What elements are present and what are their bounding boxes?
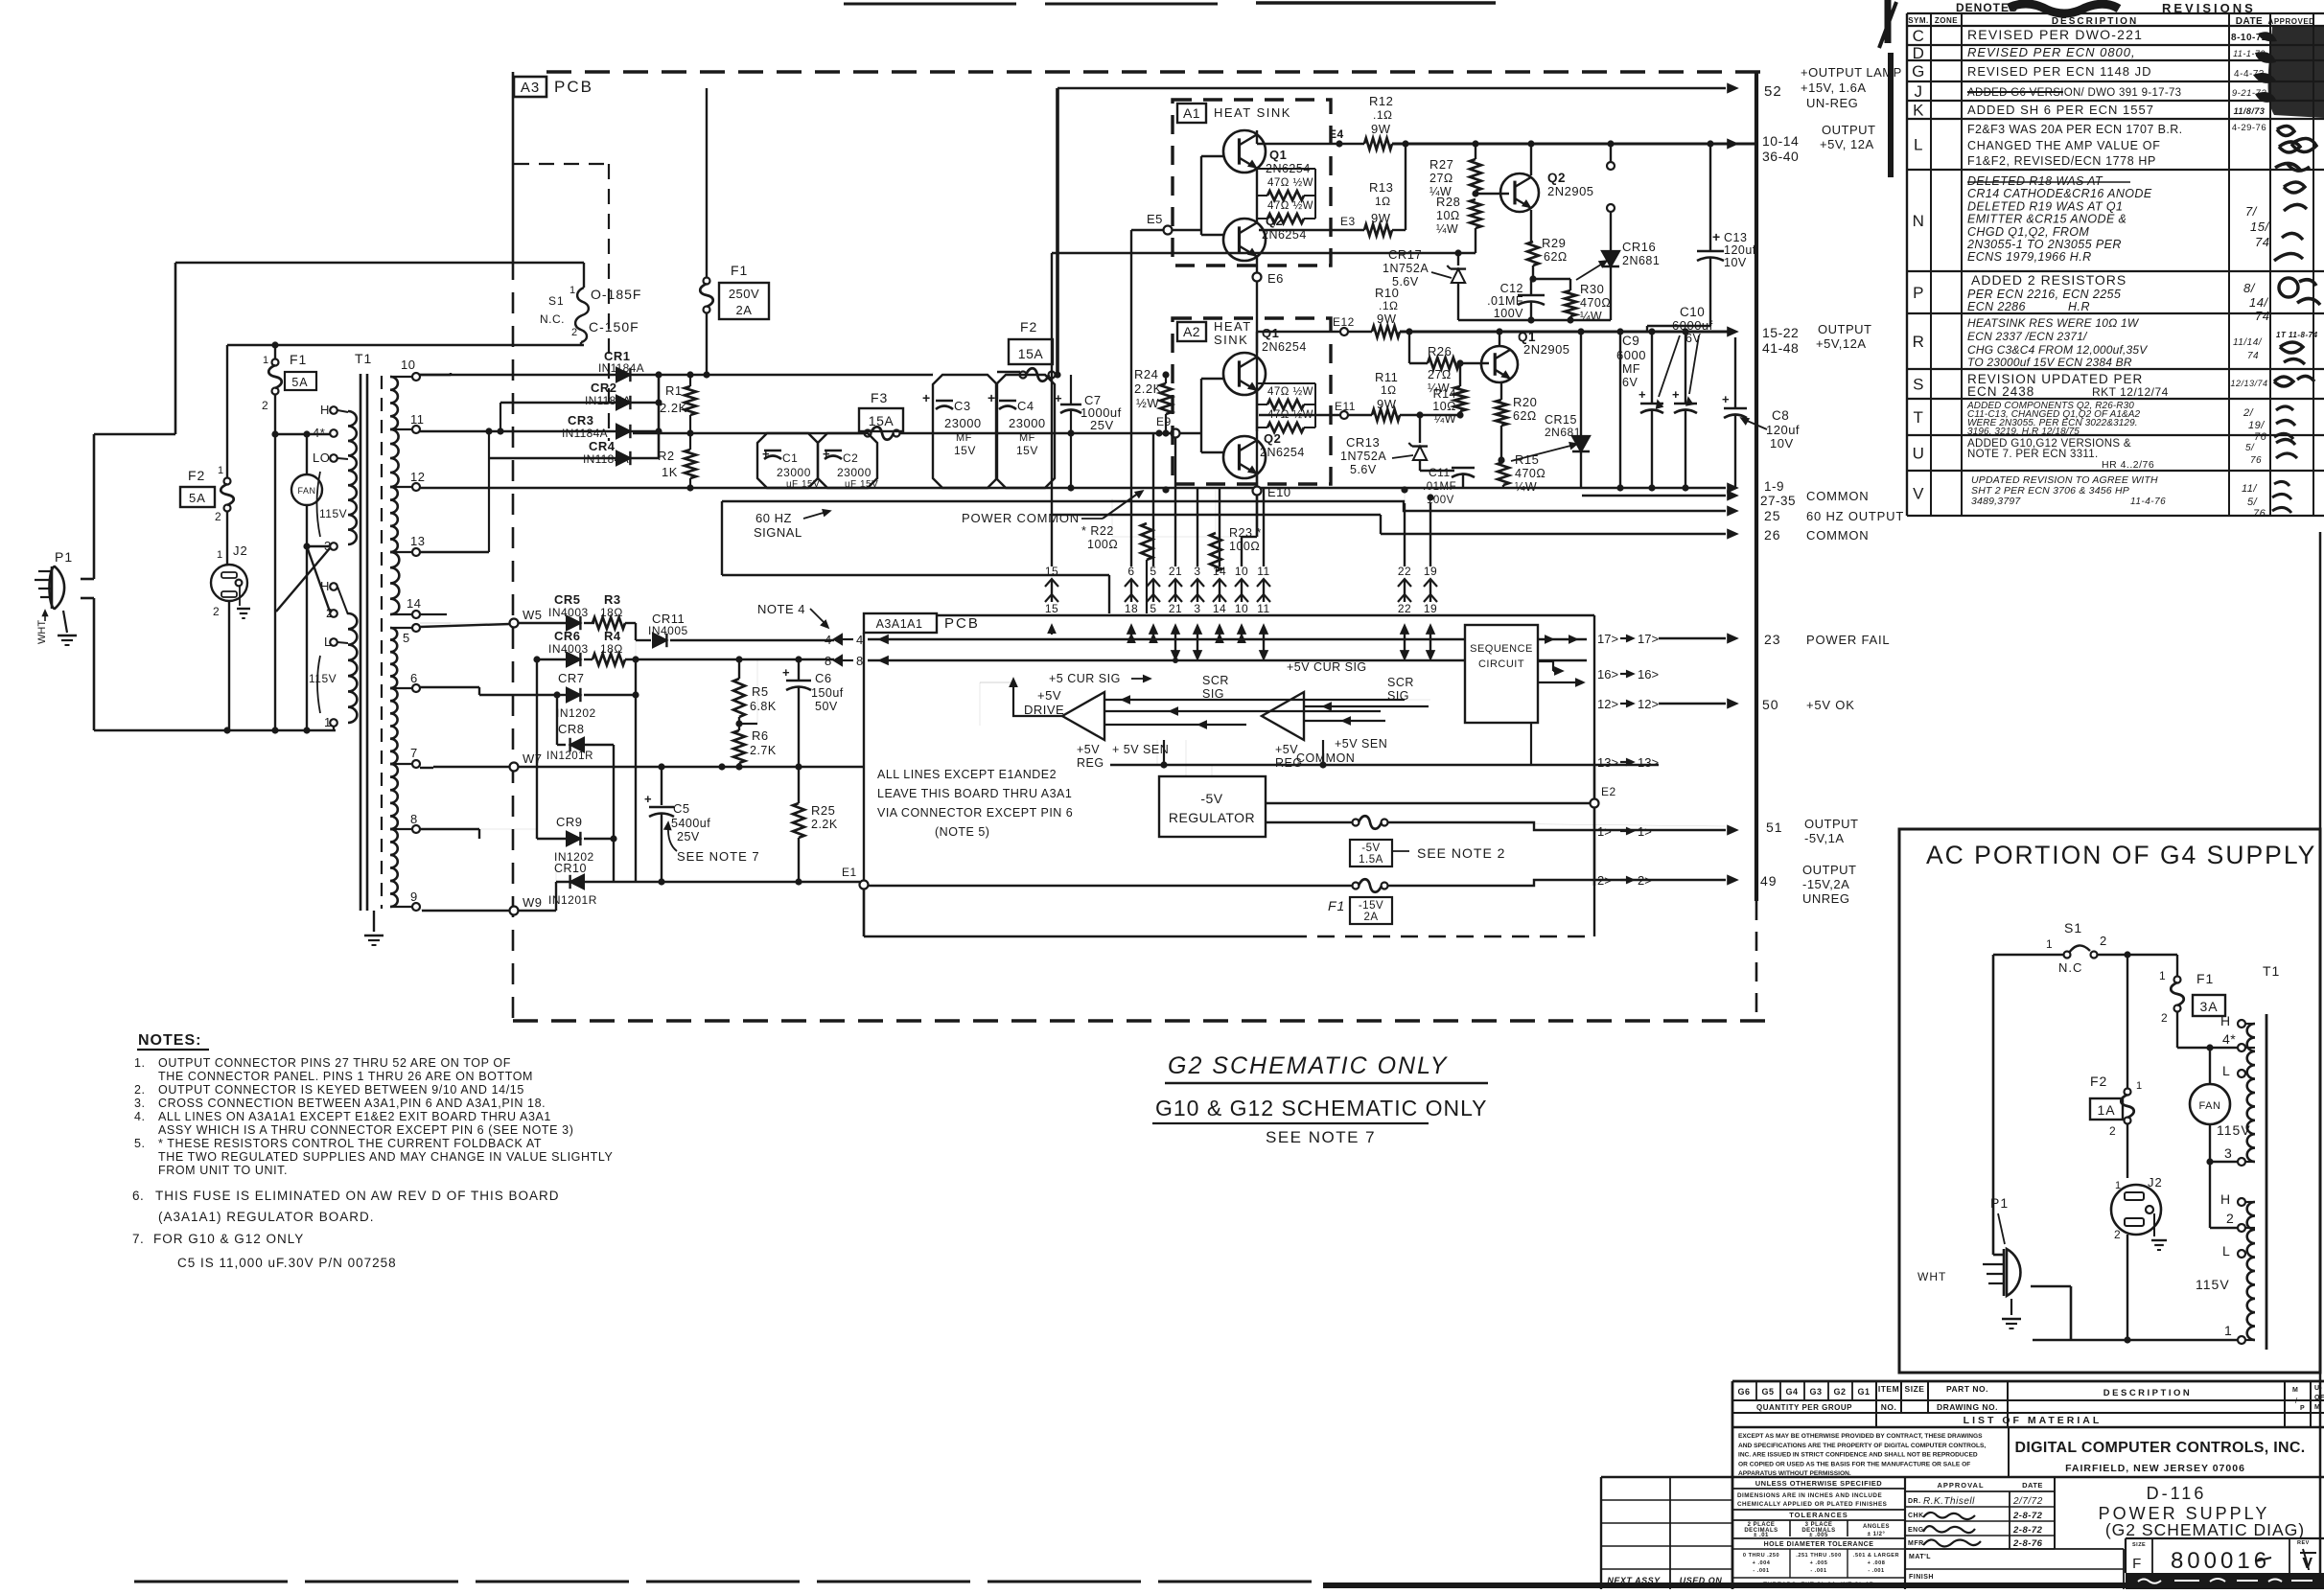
svg-text:19: 19 <box>1424 602 1437 615</box>
svg-text:E5: E5 <box>1147 212 1163 226</box>
svg-text:* THESE RESISTORS CONTROL THE: * THESE RESISTORS CONTROL THE CURRENT FO… <box>158 1137 542 1150</box>
svg-text:2: 2 <box>2226 1211 2234 1226</box>
svg-text:IN1184A: IN1184A <box>562 427 608 440</box>
svg-text:OUTPUT CONNECTOR PINS 27 THRU: OUTPUT CONNECTOR PINS 27 THRU 52 ARE ON … <box>158 1056 511 1070</box>
svg-text:ADDED SH 6 PER ECN 1557: ADDED SH 6 PER ECN 1557 <box>1967 103 2154 117</box>
svg-text:11: 11 <box>410 412 425 427</box>
svg-text:F1: F1 <box>290 352 307 367</box>
svg-text:WHT: WHT <box>36 620 48 644</box>
svg-text:HEATSINK RES WERE 10Ω 1W: HEATSINK RES WERE 10Ω 1W <box>1967 316 2140 330</box>
svg-text:F2: F2 <box>1020 319 1037 335</box>
svg-text:11: 11 <box>1257 565 1269 578</box>
svg-text:Q1: Q1 <box>1262 326 1279 340</box>
svg-text:P: P <box>1913 284 1924 302</box>
svg-text:+: + <box>988 390 996 405</box>
svg-text:O-185F: O-185F <box>591 287 641 302</box>
svg-text:G3: G3 <box>1809 1387 1822 1397</box>
svg-text:1Ω: 1Ω <box>1381 383 1397 397</box>
svg-text:CR17: CR17 <box>1388 247 1422 262</box>
svg-text:10Ω: 10Ω <box>1432 400 1456 413</box>
svg-text:OF: OF <box>2314 1395 2324 1401</box>
svg-text:C9: C9 <box>1622 334 1639 348</box>
svg-text:2-8-72: 2-8-72 <box>2012 1511 2043 1521</box>
svg-text:R23 *: R23 * <box>1229 526 1262 540</box>
svg-text:OUTPUT CONNECTOR IS KEYED BETW: OUTPUT CONNECTOR IS KEYED BETWEEN 9/10 A… <box>158 1083 524 1097</box>
svg-text:ENG: ENG <box>1908 1527 1924 1534</box>
svg-text:22: 22 <box>1398 565 1411 578</box>
svg-text:SEE NOTE 7: SEE NOTE 7 <box>1266 1128 1376 1146</box>
svg-text:23: 23 <box>1764 632 1781 647</box>
svg-text:1-9: 1-9 <box>1764 479 1784 494</box>
svg-text:OUTPUT: OUTPUT <box>1818 322 1871 336</box>
svg-text:11-4-76: 11-4-76 <box>2130 497 2166 507</box>
svg-text:WHT: WHT <box>1917 1270 1946 1283</box>
svg-text:R26: R26 <box>1428 344 1452 358</box>
svg-text:74: 74 <box>2247 351 2259 361</box>
svg-text:52: 52 <box>1764 83 1782 100</box>
svg-text:2/7/72: 2/7/72 <box>2012 1496 2043 1507</box>
svg-text:+5V, 12A: +5V, 12A <box>1820 137 1874 151</box>
svg-text:ZONE: ZONE <box>1935 16 1958 25</box>
svg-text:(G2 SCHEMATIC DIAG): (G2 SCHEMATIC DIAG) <box>2105 1520 2305 1539</box>
svg-text:R: R <box>1913 333 1925 351</box>
svg-text:THE CONNECTOR PANEL. PINS 1 T: THE CONNECTOR PANEL. PINS 1 THRU 26 ARE … <box>158 1070 533 1083</box>
svg-text:P1: P1 <box>55 549 73 565</box>
svg-text:W5: W5 <box>523 608 543 622</box>
svg-text:5400uf: 5400uf <box>671 817 710 830</box>
svg-text:UN-REG: UN-REG <box>1806 96 1858 110</box>
svg-text:/: / <box>2295 1397 2298 1405</box>
svg-text:R6: R6 <box>752 728 769 743</box>
svg-text:62Ω: 62Ω <box>1513 409 1537 423</box>
svg-text:¼W: ¼W <box>1436 222 1458 236</box>
svg-text:+5 CUR SIG: +5 CUR SIG <box>1049 672 1121 685</box>
svg-text:1.: 1. <box>134 1056 145 1070</box>
svg-text:R20: R20 <box>1513 395 1537 409</box>
svg-text:+ .004: + .004 <box>1753 1560 1771 1566</box>
svg-text:INC. ARE ISSUED IN STRICT CON: INC. ARE ISSUED IN STRICT CONFIDENCE AND… <box>1738 1452 1978 1459</box>
svg-text:+5V OK: +5V OK <box>1806 698 1855 712</box>
svg-text:49: 49 <box>1760 873 1778 889</box>
svg-text:A1: A1 <box>1183 105 1200 121</box>
svg-text:.1Ω: .1Ω <box>1373 108 1392 122</box>
svg-text:+: + <box>922 390 931 405</box>
svg-text:250V: 250V <box>729 287 759 301</box>
svg-text:4-29-76: 4-29-76 <box>2232 123 2266 133</box>
svg-text:4*: 4* <box>2222 1031 2236 1047</box>
svg-text:(NOTE 5): (NOTE 5) <box>935 825 989 839</box>
svg-text:18Ω: 18Ω <box>600 642 623 656</box>
svg-text:2: 2 <box>262 399 268 412</box>
svg-text:N: N <box>1913 212 1925 230</box>
svg-text:1: 1 <box>2115 1180 2122 1191</box>
svg-text:9W: 9W <box>1371 122 1391 136</box>
svg-text:18Ω: 18Ω <box>600 606 623 619</box>
svg-text:EMITTER &CR15 ANODE &: EMITTER &CR15 ANODE & <box>1967 213 2126 226</box>
svg-text:17>: 17> <box>1597 632 1618 646</box>
svg-text:10: 10 <box>1235 602 1248 615</box>
svg-text:TO 23000uf 15V ECN 2384 BR: TO 23000uf 15V ECN 2384 BR <box>1967 356 2132 369</box>
svg-text:F2&F3 WAS 20A PER ECN 1707 B.R: F2&F3 WAS 20A PER ECN 1707 B.R. <box>1967 123 2183 136</box>
svg-text:G2: G2 <box>1833 1387 1846 1397</box>
svg-text:15V: 15V <box>954 444 976 457</box>
svg-text:CR9: CR9 <box>556 815 583 829</box>
svg-text:IN1184A: IN1184A <box>598 361 644 375</box>
svg-text:U-: U- <box>2314 1385 2323 1392</box>
svg-text:COMMON: COMMON <box>1806 528 1869 543</box>
svg-text:CR15: CR15 <box>1545 413 1577 427</box>
svg-text:CHANGED THE AMP VALUE OF: CHANGED THE AMP VALUE OF <box>1967 139 2161 152</box>
svg-text:1: 1 <box>324 715 332 729</box>
svg-text:IN4003: IN4003 <box>548 642 589 656</box>
svg-text:E9: E9 <box>1156 415 1172 428</box>
svg-text:OUTPUT: OUTPUT <box>1822 123 1875 137</box>
svg-text:62Ω: 62Ω <box>1544 250 1568 264</box>
svg-text:* R22: * R22 <box>1081 524 1114 538</box>
svg-text:+5V: +5V <box>1077 743 1100 756</box>
svg-text:27-35: 27-35 <box>1760 494 1796 508</box>
svg-text:MFR: MFR <box>1908 1540 1924 1547</box>
svg-text:8: 8 <box>856 654 864 668</box>
svg-text:DATE: DATE <box>2236 16 2263 27</box>
svg-text:2: 2 <box>326 606 334 620</box>
svg-text:11/: 11/ <box>2242 483 2257 495</box>
svg-text:FROM UNIT TO UNIT.: FROM UNIT TO UNIT. <box>158 1164 288 1177</box>
svg-text:2N6254: 2N6254 <box>1260 446 1305 459</box>
svg-text:APPROVED: APPROVED <box>2268 17 2315 26</box>
svg-text:2: 2 <box>2100 934 2107 948</box>
svg-text:CIRCUIT: CIRCUIT <box>1478 658 1524 670</box>
svg-text:0 THRU .250: 0 THRU .250 <box>1743 1553 1779 1559</box>
svg-text:IN1202: IN1202 <box>556 706 596 720</box>
svg-text:SEE NOTE 7: SEE NOTE 7 <box>677 849 760 864</box>
svg-text:A2: A2 <box>1183 324 1200 339</box>
svg-text:IN1184A: IN1184A <box>585 394 631 407</box>
svg-text:F3: F3 <box>871 390 888 405</box>
svg-text:+5V CUR SIG: +5V CUR SIG <box>1287 660 1367 674</box>
svg-text:CR6: CR6 <box>554 629 581 643</box>
svg-text:Q2: Q2 <box>1266 214 1283 228</box>
svg-text:10: 10 <box>401 358 415 372</box>
svg-text:3A: 3A <box>2199 999 2218 1014</box>
svg-text:R30: R30 <box>1580 282 1604 296</box>
svg-text:S1: S1 <box>2064 920 2082 936</box>
svg-text:ITEM: ITEM <box>1878 1384 1899 1394</box>
svg-text:7: 7 <box>410 746 418 760</box>
svg-text:HOLE DIAMETER TOLERANCE: HOLE DIAMETER TOLERANCE <box>1764 1541 1874 1548</box>
svg-text:47Ω ½W: 47Ω ½W <box>1267 386 1313 398</box>
svg-text:1: 1 <box>217 549 223 561</box>
svg-text:2.2K: 2.2K <box>811 818 838 831</box>
svg-text:47Ω ½W: 47Ω ½W <box>1267 177 1313 189</box>
svg-text:.01MF: .01MF <box>1423 481 1456 493</box>
svg-text:RKT 12/12/74: RKT 12/12/74 <box>2092 385 2169 399</box>
svg-text:15/: 15/ <box>2250 219 2269 234</box>
svg-text:NO.: NO. <box>1881 1402 1897 1412</box>
svg-text:V: V <box>1913 485 1924 503</box>
svg-text:2.7K: 2.7K <box>750 744 777 757</box>
svg-text:OUTPUT: OUTPUT <box>1804 817 1858 831</box>
svg-text:7.: 7. <box>132 1232 144 1246</box>
svg-text:DELETED R19 WAS AT Q1: DELETED R19 WAS AT Q1 <box>1967 199 2123 213</box>
svg-text:115V: 115V <box>2217 1122 2251 1138</box>
svg-text:11/8/73: 11/8/73 <box>2234 106 2266 116</box>
svg-text:2: 2 <box>2161 1011 2168 1025</box>
svg-text:R14: R14 <box>1433 387 1456 401</box>
svg-text:H.R: H.R <box>2068 300 2090 313</box>
svg-text:E12: E12 <box>1333 315 1355 329</box>
svg-text:-15V,2A: -15V,2A <box>1802 877 1849 891</box>
svg-text:P: P <box>2300 1405 2305 1412</box>
svg-text:TOLERANCES: TOLERANCES <box>1789 1511 1848 1519</box>
svg-text:N.C.: N.C. <box>540 312 565 326</box>
svg-text:3: 3 <box>1194 602 1200 615</box>
svg-text:120uf: 120uf <box>1766 423 1800 437</box>
svg-text:2N3055-1 TO 2N3055 PER: 2N3055-1 TO 2N3055 PER <box>1966 238 2122 251</box>
svg-text:22: 22 <box>1398 602 1411 615</box>
svg-text:ADDED 2 RESISTORS: ADDED 2 RESISTORS <box>1971 272 2126 288</box>
svg-text:POWER FAIL: POWER FAIL <box>1806 633 1890 647</box>
svg-text:2.: 2. <box>134 1083 145 1097</box>
svg-text:R11: R11 <box>1375 370 1398 384</box>
svg-text:J2: J2 <box>2148 1175 2163 1190</box>
svg-text:6: 6 <box>410 671 418 685</box>
svg-text:CR7: CR7 <box>558 671 585 685</box>
svg-text:-15V: -15V <box>1359 900 1383 912</box>
svg-text:F: F <box>2132 1556 2142 1572</box>
svg-text:D-116: D-116 <box>2147 1484 2207 1503</box>
svg-text:THE TWO REGULATED SUPPLIES AND: THE TWO REGULATED SUPPLIES AND MAY CHANG… <box>158 1150 613 1164</box>
svg-text:DRAWING NO.: DRAWING NO. <box>1937 1402 1998 1412</box>
svg-text:MF: MF <box>1019 432 1035 444</box>
svg-text:11: 11 <box>1257 602 1269 615</box>
svg-text:2N2905: 2N2905 <box>1547 184 1594 198</box>
svg-text:C5 IS 11,000 uF.30V P/N 007258: C5 IS 11,000 uF.30V P/N 007258 <box>177 1256 397 1270</box>
svg-text:470Ω: 470Ω <box>1580 296 1611 310</box>
svg-text:CR14 CATHODE&CR16 ANODE: CR14 CATHODE&CR16 ANODE <box>1967 187 2152 200</box>
svg-text:CR3: CR3 <box>568 413 594 427</box>
svg-text:9W: 9W <box>1377 397 1397 411</box>
svg-text:C1: C1 <box>782 451 798 465</box>
svg-text:21: 21 <box>1169 602 1182 615</box>
svg-text:15A: 15A <box>1018 346 1044 361</box>
svg-text:1: 1 <box>2159 969 2166 982</box>
svg-text:G6: G6 <box>1737 1387 1750 1397</box>
svg-text:25V: 25V <box>677 830 700 843</box>
svg-text:L: L <box>324 635 332 649</box>
svg-text:5.: 5. <box>134 1137 145 1150</box>
svg-text:POWER COMMON: POWER COMMON <box>962 511 1080 525</box>
svg-text:2: 2 <box>2114 1228 2121 1241</box>
svg-text:ASSY WHICH IS A THRU CONNECTOR: ASSY WHICH IS A THRU CONNECTOR EXCEPT PI… <box>158 1123 573 1137</box>
svg-text:F1: F1 <box>731 263 748 278</box>
svg-text:15A: 15A <box>869 413 895 428</box>
svg-text:CR8: CR8 <box>558 722 585 736</box>
svg-text:13>: 13> <box>1638 755 1659 770</box>
svg-text:5: 5 <box>1150 602 1156 615</box>
svg-text:10V: 10V <box>1770 436 1794 450</box>
svg-text:APPARATUS WITHOUT PERMISSION.: APPARATUS WITHOUT PERMISSION. <box>1738 1470 1851 1477</box>
svg-text:EXCEPT AS MAY BE OTHERWISE PRO: EXCEPT AS MAY BE OTHERWISE PROVIDED BY C… <box>1738 1433 1983 1440</box>
svg-text:REVISED PER DWO-221: REVISED PER DWO-221 <box>1967 27 2143 42</box>
svg-text:SEQUENCE: SEQUENCE <box>1470 643 1533 655</box>
svg-text:5: 5 <box>403 631 410 645</box>
svg-text:SCR: SCR <box>1202 674 1229 687</box>
svg-text:60 HZ: 60 HZ <box>755 511 792 525</box>
svg-text:SEE NOTE 2: SEE NOTE 2 <box>1417 845 1505 861</box>
svg-text:N.C: N.C <box>2058 960 2082 975</box>
svg-text:12>: 12> <box>1638 697 1659 711</box>
svg-text:50V: 50V <box>815 700 838 713</box>
svg-text:uF 15V: uF 15V <box>845 479 878 490</box>
svg-text:OUTPUT: OUTPUT <box>1802 863 1856 877</box>
svg-text:CROSS CONNECTION BETWEEN A3A1,: CROSS CONNECTION BETWEEN A3A1,PIN 6 AND … <box>158 1097 546 1110</box>
svg-text:100Ω: 100Ω <box>1087 538 1118 551</box>
svg-text:2A: 2A <box>1363 912 1378 923</box>
svg-text:.501 & LARGER: .501 & LARGER <box>1853 1553 1899 1559</box>
svg-text:MAT'L: MAT'L <box>1909 1554 1931 1560</box>
svg-text:R28: R28 <box>1436 195 1460 209</box>
svg-text:5/: 5/ <box>2245 443 2255 453</box>
svg-text:3: 3 <box>1194 565 1200 578</box>
svg-text:J: J <box>1915 82 1923 101</box>
svg-text:+15V, 1.6A: +15V, 1.6A <box>1801 81 1867 95</box>
svg-text:+OUTPUT LAMP: +OUTPUT LAMP <box>1801 65 1902 80</box>
svg-text:DIGITAL COMPUTER CONTROLS, INC: DIGITAL COMPUTER CONTROLS, INC. <box>2015 1440 2306 1456</box>
svg-text:36-40: 36-40 <box>1762 149 1799 164</box>
svg-text:+ .008: + .008 <box>1868 1560 1886 1566</box>
svg-text:115V: 115V <box>309 672 337 685</box>
svg-text:Q2: Q2 <box>1264 431 1281 446</box>
svg-text:ECN 2337 /ECN 2371/: ECN 2337 /ECN 2371/ <box>1967 330 2088 343</box>
svg-text:DESCRIPTION: DESCRIPTION <box>2052 16 2138 27</box>
svg-text:115V: 115V <box>319 507 347 520</box>
svg-text:15: 15 <box>1045 565 1058 578</box>
svg-text:E2: E2 <box>1601 785 1616 798</box>
svg-text:Q1: Q1 <box>1269 148 1287 162</box>
svg-text:C12: C12 <box>1500 282 1523 295</box>
svg-text:2>: 2> <box>1638 873 1652 888</box>
svg-text:1K: 1K <box>662 465 678 479</box>
svg-text:T: T <box>1914 408 1924 427</box>
svg-text:+: + <box>644 792 652 806</box>
svg-text:6.8K: 6.8K <box>750 700 777 713</box>
svg-text:G: G <box>1912 62 1925 81</box>
svg-text:1: 1 <box>2224 1323 2232 1338</box>
svg-text:1A: 1A <box>2097 1102 2115 1118</box>
svg-text:1>: 1> <box>1638 824 1652 839</box>
svg-text:2-8-76: 2-8-76 <box>2012 1538 2043 1549</box>
svg-text:Q2: Q2 <box>1547 171 1566 185</box>
svg-text:1T 11-8-74: 1T 11-8-74 <box>2276 331 2318 339</box>
svg-text:LIST OF MATERIAL: LIST OF MATERIAL <box>1964 1415 2103 1426</box>
svg-text:F2: F2 <box>188 468 205 483</box>
svg-text:W9: W9 <box>523 895 543 910</box>
svg-text:¼W: ¼W <box>1515 480 1537 494</box>
svg-text:74: 74 <box>2255 235 2269 249</box>
svg-text:C2: C2 <box>843 451 858 465</box>
svg-text:C11: C11 <box>1429 466 1451 479</box>
svg-text:ECNS 1979,1966 H.R: ECNS 1979,1966 H.R <box>1967 250 2092 264</box>
svg-text:- .001: - .001 <box>1753 1568 1769 1574</box>
svg-text:23000: 23000 <box>837 466 871 479</box>
svg-text:P1: P1 <box>1990 1195 2009 1211</box>
svg-text:ECN 2286: ECN 2286 <box>1967 300 2026 313</box>
svg-text:- .001: - .001 <box>1810 1568 1826 1574</box>
svg-text:.251 THRU .500: .251 THRU .500 <box>1796 1553 1841 1559</box>
svg-text:14: 14 <box>1213 602 1226 615</box>
svg-text:2N6254: 2N6254 <box>1262 340 1307 354</box>
svg-text:L: L <box>2222 1063 2230 1078</box>
svg-text:19: 19 <box>1424 565 1437 578</box>
svg-text:.01MF: .01MF <box>1487 294 1523 308</box>
svg-text:PART NO.: PART NO. <box>1946 1384 1988 1394</box>
svg-text:R2: R2 <box>658 449 675 463</box>
svg-text:+: + <box>1638 387 1646 402</box>
svg-text:120uf: 120uf <box>1724 243 1756 257</box>
svg-text:25V: 25V <box>1090 418 1114 432</box>
svg-text:2/: 2/ <box>2243 407 2254 419</box>
svg-text:F2: F2 <box>2090 1074 2107 1089</box>
svg-text:DELETED R18 WAS AT: DELETED R18 WAS AT <box>1967 174 2103 188</box>
svg-text:M: M <box>2314 1404 2320 1411</box>
svg-text:AC PORTION OF G4 SUPPLY: AC PORTION OF G4 SUPPLY <box>1926 841 2316 869</box>
svg-text:CHGD Q1,Q2, FROM: CHGD Q1,Q2, FROM <box>1967 225 2089 239</box>
svg-text:2N2905: 2N2905 <box>1523 342 1570 357</box>
svg-text:47Ω ½W: 47Ω ½W <box>1267 200 1313 212</box>
svg-text:.1Ω: .1Ω <box>1379 299 1398 312</box>
svg-text:E6: E6 <box>1267 271 1284 286</box>
svg-text:15-22: 15-22 <box>1762 325 1799 340</box>
svg-text:R24: R24 <box>1134 367 1158 381</box>
svg-text:CR2: CR2 <box>591 381 617 395</box>
svg-text:4.: 4. <box>134 1110 145 1123</box>
svg-text:16>: 16> <box>1638 667 1659 681</box>
svg-text:SCR: SCR <box>1387 676 1414 689</box>
svg-text:SINK: SINK <box>1214 333 1248 347</box>
svg-text:J2: J2 <box>233 543 248 558</box>
svg-text:11/14/: 11/14/ <box>2233 337 2263 348</box>
svg-text:100V: 100V <box>1494 307 1523 320</box>
svg-text:G10 & G12 SCHEMATIC ONLY: G10 & G12 SCHEMATIC ONLY <box>1155 1096 1488 1120</box>
svg-text:E10: E10 <box>1267 485 1291 499</box>
svg-text:5.6V: 5.6V <box>1392 275 1419 289</box>
svg-text:F1&F2, REVISED/ECN 1778 HP: F1&F2, REVISED/ECN 1778 HP <box>1967 154 2156 168</box>
svg-text:3489,3797: 3489,3797 <box>1971 496 2021 507</box>
svg-text:R.K.Thisell: R.K.Thisell <box>1923 1496 1975 1507</box>
svg-text:THIS FUSE IS ELIMINATED ON AW: THIS FUSE IS ELIMINATED ON AW REV D OF T… <box>155 1189 560 1203</box>
svg-text:NOTE 4: NOTE 4 <box>757 602 805 616</box>
svg-text:SIZE: SIZE <box>1905 1384 1925 1394</box>
svg-text:C5: C5 <box>673 801 690 816</box>
svg-text:HEAT: HEAT <box>1214 319 1252 334</box>
svg-text:+: + <box>782 665 790 680</box>
svg-text:6000uf: 6000uf <box>1672 318 1713 333</box>
svg-text:CHEMICALLY APPLIED OR PLATED F: CHEMICALLY APPLIED OR PLATED FINISHES <box>1737 1501 1887 1508</box>
svg-text:23000: 23000 <box>944 416 982 430</box>
svg-text:CR5: CR5 <box>554 592 581 607</box>
svg-text:10V: 10V <box>1724 256 1747 269</box>
svg-text:DR.: DR. <box>1908 1498 1921 1505</box>
svg-text:+: + <box>1722 392 1730 406</box>
svg-text:LO: LO <box>313 450 330 465</box>
svg-text:-5V: -5V <box>1200 791 1222 806</box>
svg-text:27Ω: 27Ω <box>1429 172 1453 185</box>
svg-text:NOTES:: NOTES: <box>138 1032 201 1049</box>
svg-text:+5V,12A: +5V,12A <box>1816 336 1867 351</box>
svg-text:MF: MF <box>956 432 972 444</box>
svg-text:23000: 23000 <box>1009 416 1046 430</box>
